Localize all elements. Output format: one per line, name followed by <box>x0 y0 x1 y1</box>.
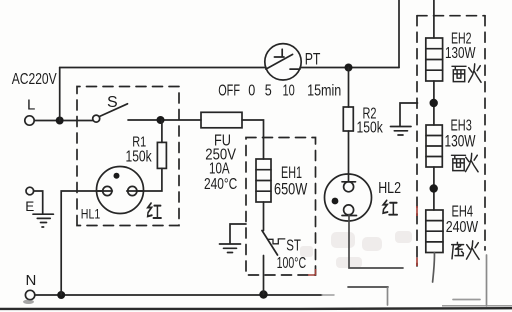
wire FU to EH1 drop <box>242 120 264 159</box>
ground at E <box>34 191 43 214</box>
lamp HL1 <box>97 167 144 214</box>
wire faint lower-right segment d <box>486 255 488 306</box>
label mianhuo for EH3 <box>452 155 466 170</box>
heater EH1 <box>256 159 271 202</box>
svg-text:240°C: 240°C <box>204 176 237 193</box>
wire faint right corner line <box>442 305 512 307</box>
node N-junction mid <box>259 290 267 298</box>
wire top rail right segment <box>290 68 399 70</box>
enclosure box3 (EH2 EH3 EH4) <box>417 16 485 266</box>
wire L rail into box to switch <box>64 120 93 122</box>
wire EH3 to EH4 <box>433 167 435 210</box>
svg-text:650W: 650W <box>274 181 308 199</box>
lamp HL2 <box>348 131 350 182</box>
svg-text:ST: ST <box>286 238 301 255</box>
svg-text:0: 0 <box>248 83 255 100</box>
switch S <box>93 115 100 122</box>
ground at box2 <box>230 224 246 244</box>
svg-text:150k: 150k <box>126 149 152 166</box>
wire faint lower-right segment c <box>453 299 480 301</box>
wire EH2 to EH3 <box>433 81 435 125</box>
wire HL1 return to N <box>61 191 103 295</box>
svg-text:5: 5 <box>265 83 272 100</box>
node EH2-EH3 junction <box>430 99 438 107</box>
svg-text:10: 10 <box>283 83 295 100</box>
svg-text:PT: PT <box>305 50 321 69</box>
label dihuo for EH4 <box>452 242 464 258</box>
red dash accent on enclosure box2 corner <box>308 269 316 275</box>
enclosure box2 (EH1 ST) <box>246 138 316 276</box>
label mianhuo for EH2 <box>452 66 466 81</box>
svg-text:100°C: 100°C <box>277 255 307 272</box>
red dash accents on enclosure box3 <box>416 206 418 266</box>
svg-text:240W: 240W <box>446 219 479 236</box>
svg-text:EH4: EH4 <box>452 203 474 220</box>
svg-text:HL1: HL1 <box>81 206 101 222</box>
heater EH3 <box>426 125 442 167</box>
wire N rail <box>35 294 322 296</box>
svg-text:15min: 15min <box>307 83 341 100</box>
wire HL2 to lower right <box>349 215 403 269</box>
wire R1 to HL1 <box>137 168 162 191</box>
node top-rail junction <box>345 64 353 72</box>
thermostat ST <box>263 202 265 231</box>
svg-text:HL2: HL2 <box>378 180 401 197</box>
svg-text:150k: 150k <box>357 120 384 137</box>
wire junction up to top rail <box>59 68 61 121</box>
resistor R1 <box>157 142 166 168</box>
svg-text:AC220V: AC220V <box>12 71 57 88</box>
svg-text:130W: 130W <box>445 45 476 62</box>
scan watermark smudges <box>300 231 412 268</box>
label red (hong) for HL2 <box>383 200 397 214</box>
wire faint lower-right segment a <box>348 286 388 288</box>
wire EH4 tail <box>433 253 435 283</box>
node R1 junction <box>157 116 165 124</box>
label red (hong) for HL1 <box>148 203 161 218</box>
svg-text:S: S <box>107 94 118 111</box>
timer PT <box>265 44 301 80</box>
wire top rail left segment <box>60 67 266 69</box>
svg-text:N: N <box>26 272 37 289</box>
wire EH2 feed from top edge <box>433 0 435 38</box>
resistor R2 <box>348 68 350 108</box>
ground at box3 <box>400 103 418 126</box>
node EH3-EH4 junction <box>430 184 438 192</box>
svg-text:EH1: EH1 <box>281 163 302 182</box>
fuse FU <box>201 112 242 128</box>
wire to top edge <box>398 0 400 68</box>
svg-text:10A: 10A <box>209 161 230 178</box>
heater EH2 <box>426 38 443 81</box>
wire faint lower-right segment b <box>387 288 389 305</box>
node L-junction <box>56 117 64 125</box>
enclosure box1 (S R1 HL1) <box>77 87 179 226</box>
heater EH4 <box>426 210 443 253</box>
svg-text:130W: 130W <box>445 133 476 151</box>
svg-text:E: E <box>25 199 34 214</box>
svg-text:L: L <box>27 97 35 114</box>
node N-junction left <box>57 291 65 299</box>
wire switch to FU <box>128 119 201 121</box>
svg-text:OFF: OFF <box>218 83 240 100</box>
border bottom edge <box>0 307 512 310</box>
wire L to junction <box>34 120 59 122</box>
